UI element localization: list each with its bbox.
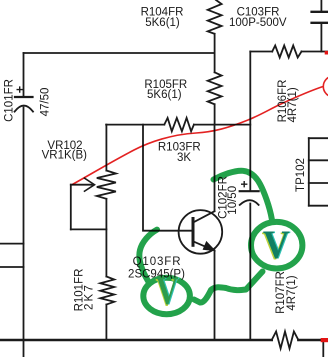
- wire R106 left lead: [250, 51, 272, 53]
- svg-text:5K6(1): 5K6(1): [147, 89, 182, 101]
- transistor Q103FR: [179, 210, 223, 254]
- label R104FR: [141, 7, 184, 30]
- svg-text:V: V: [263, 224, 290, 268]
- label Q103FR: [128, 256, 185, 281]
- wire R103 left lead: [106, 124, 164, 126]
- wire VR102 column upper: [105, 125, 107, 171]
- capacitor C103FR: [312, 0, 328, 52]
- wire C102 bottom to bus: [249, 204, 251, 341]
- green tail to base wire: [139, 230, 157, 281]
- svg-text:3K: 3K: [177, 152, 191, 164]
- green circle V2 ring: [251, 222, 302, 269]
- wire C102 branch top corner: [249, 52, 251, 191]
- wire R106 right lead: [302, 51, 328, 53]
- svg-text:V: V: [156, 269, 179, 314]
- wire R103 right lead: [194, 124, 250, 126]
- label VR102: [42, 140, 88, 162]
- resistor R104FR: [208, 0, 222, 34]
- red annotation curve: [72, 76, 328, 185]
- wire left vertical lower (C101FR to bottom edge): [23, 108, 25, 357]
- green marker annotation path: [139, 171, 302, 314]
- wire bottom bus left: [0, 339, 272, 342]
- resistor R106FR: [272, 46, 301, 58]
- svg-text:C101FR: C101FR: [4, 79, 16, 122]
- resistor R105FR: [208, 72, 222, 104]
- red mark top right: [325, 51, 328, 55]
- wire R105 to R103 node: [214, 104, 216, 124]
- svg-text:5K6(1): 5K6(1): [145, 17, 180, 29]
- wire left vertical upper (top bus to C101FR): [23, 53, 25, 97]
- svg-text:4R7(1): 4R7(1): [287, 87, 299, 122]
- wire top horizontal bus: [24, 52, 215, 54]
- label R103FR: [158, 142, 201, 165]
- red mark bottom right: [321, 338, 328, 342]
- test point TP102: [309, 138, 328, 206]
- wire left stub B: [0, 266, 24, 268]
- wire VR102 to R101: [105, 199, 107, 277]
- svg-text:100P-500V: 100P-500V: [229, 17, 287, 29]
- svg-text:4R7(1): 4R7(1): [286, 275, 298, 310]
- wire R104 to R105: [214, 34, 216, 73]
- resistor R103FR: [164, 118, 194, 131]
- svg-text:47/50: 47/50: [39, 88, 51, 117]
- svg-text:VR1K(B): VR1K(B): [42, 150, 88, 162]
- wire R101 to bottom bus: [105, 305, 107, 341]
- capacitor C102FR: [240, 182, 259, 205]
- capacitor C101FR: [15, 87, 33, 112]
- green letter V2: [262, 224, 291, 268]
- wire VR102 bottom loop: [71, 228, 107, 230]
- resistor R107FR: [272, 332, 299, 349]
- potentiometer VR102: [97, 171, 116, 199]
- svg-text:10/50: 10/50: [227, 186, 239, 215]
- wire collector up: [214, 125, 216, 212]
- svg-text:TP102: TP102: [295, 158, 307, 192]
- wire bottom bus right: [298, 339, 328, 342]
- wire emitter down to bus: [214, 251, 216, 341]
- resistor R101FR: [100, 277, 114, 305]
- svg-text:2K7: 2K7: [84, 283, 96, 310]
- wire bottom right drop: [322, 340, 324, 357]
- wire left stub A: [0, 243, 24, 245]
- red annotation balloon: [323, 76, 328, 97]
- green circle V1 ring: [143, 278, 190, 314]
- green connector V2 to V1: [194, 272, 263, 303]
- wire base riser: [143, 125, 192, 231]
- VR102 wiper arrow: [71, 178, 95, 191]
- label C103FR: [229, 7, 287, 30]
- wire VR102 wiper left vertical: [70, 185, 72, 230]
- green letter V1: [155, 269, 179, 315]
- label R105FR: [144, 79, 187, 101]
- green hook to C102: [214, 171, 272, 219]
